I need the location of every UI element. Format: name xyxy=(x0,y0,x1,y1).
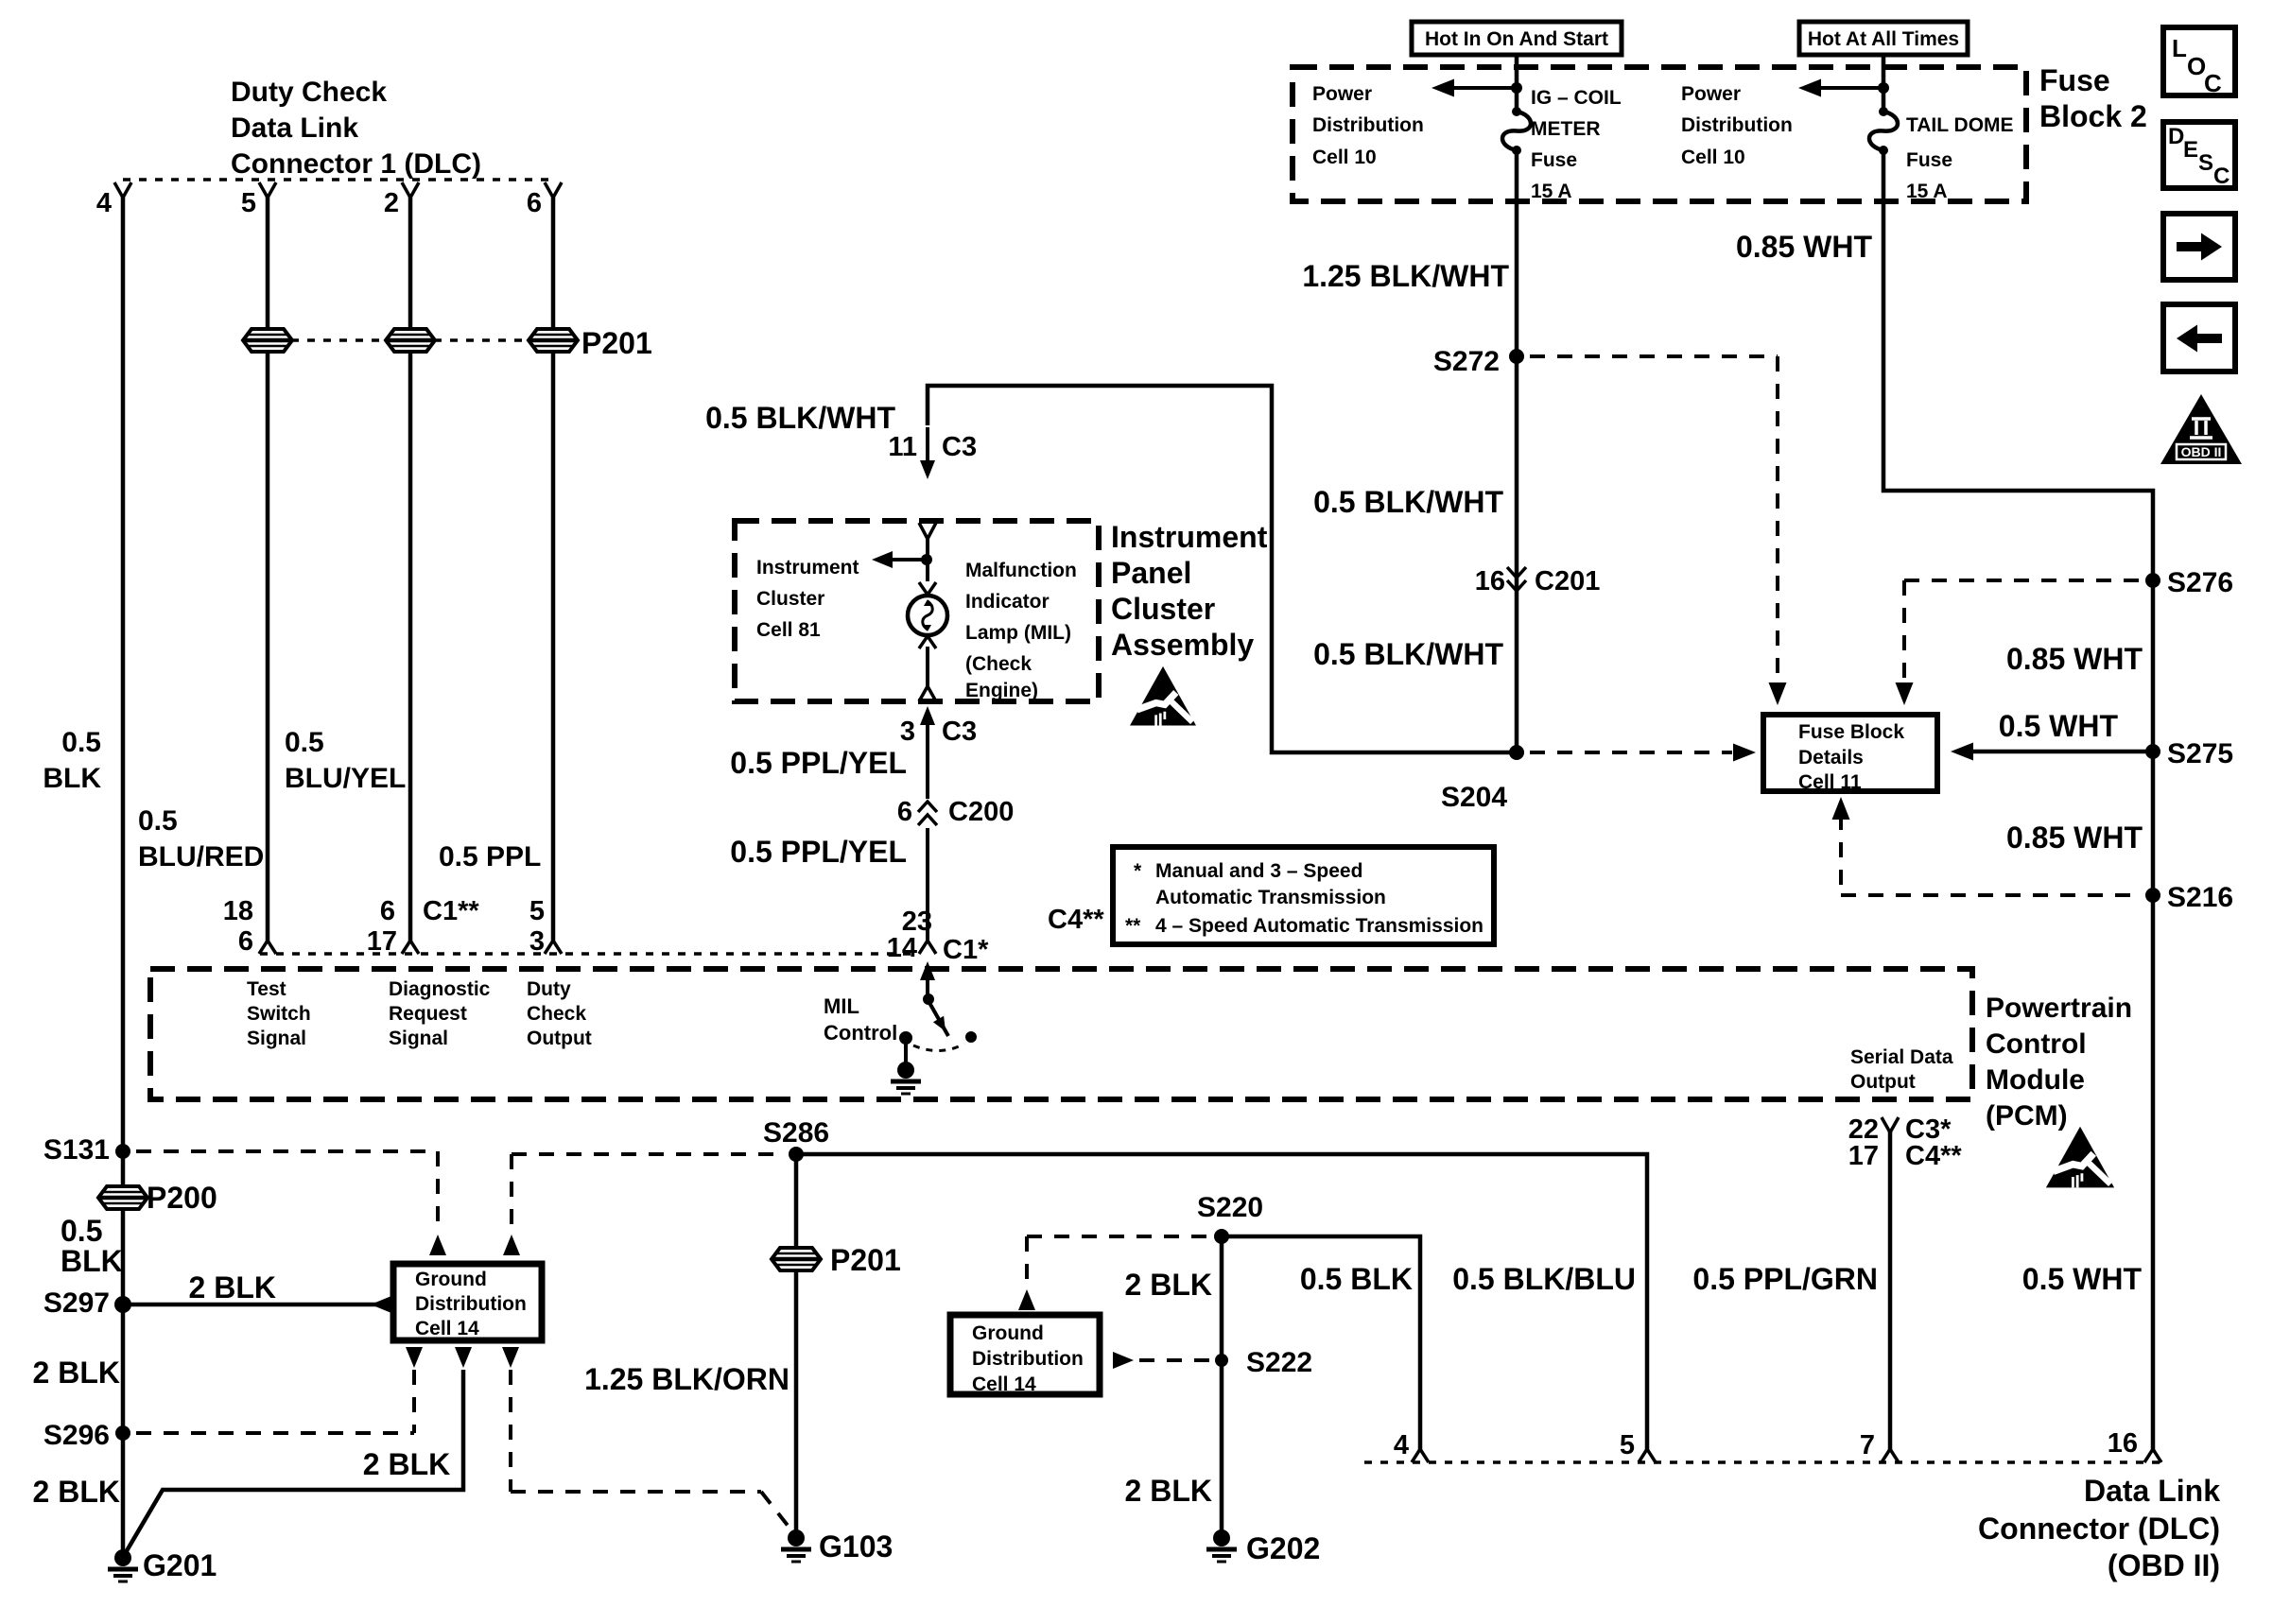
svg-text:S297: S297 xyxy=(43,1287,110,1319)
svg-text:3: 3 xyxy=(900,717,915,747)
DLC1 connector dashed line xyxy=(123,178,553,181)
S275 arrowhead xyxy=(1951,743,1973,761)
PCM dashed box xyxy=(150,969,1972,1099)
svg-text:Fuse: Fuse xyxy=(1906,149,1952,171)
DLC pin 5 fork xyxy=(1639,1449,1647,1462)
S220 route arrowhead xyxy=(1018,1289,1035,1310)
G201 ground wire xyxy=(125,1370,463,1554)
S297 ground wire xyxy=(123,1303,390,1307)
ground dist arrow bottom left xyxy=(406,1347,423,1368)
svg-text:Output: Output xyxy=(527,1028,592,1049)
MIL control switch blade xyxy=(928,1001,948,1036)
svg-text:0.85 WHT: 0.85 WHT xyxy=(1736,230,1872,264)
node S204 xyxy=(1509,745,1524,760)
C201 connector chevrons xyxy=(1507,567,1526,578)
svg-text:Control: Control xyxy=(1986,1028,2087,1060)
S286 dashed line left xyxy=(512,1152,783,1156)
node S272 xyxy=(1509,349,1524,364)
instrument cluster pin fork xyxy=(919,523,928,539)
svg-text:(Check: (Check xyxy=(965,653,1032,675)
svg-text:Malfunction: Malfunction xyxy=(965,560,1077,581)
svg-text:18: 18 xyxy=(223,896,253,926)
DLC1 pin 2 fork xyxy=(402,182,410,198)
MIL control switch arrow to pin 14 xyxy=(926,978,929,999)
svg-text:L: L xyxy=(2172,34,2187,62)
IG-COIL power distribution arrow xyxy=(1447,86,1517,90)
svg-text:Manual and 3 – Speed: Manual and 3 – Speed xyxy=(1155,860,1362,882)
lamp branch junction dot xyxy=(921,554,932,565)
svg-text:Cell 14: Cell 14 xyxy=(415,1318,479,1339)
svg-text:17: 17 xyxy=(367,926,397,957)
svg-text:Cluster: Cluster xyxy=(1111,592,1215,626)
ESD symbol instrument cluster xyxy=(1130,666,1196,726)
svg-text:1.25 BLK/ORN: 1.25 BLK/ORN xyxy=(584,1362,789,1396)
S272 dashed route to fuse details xyxy=(1530,354,1778,358)
wire 0.5 PPL/YEL upper xyxy=(926,754,929,799)
svg-text:2: 2 xyxy=(384,188,399,218)
svg-text:Module: Module xyxy=(1986,1064,2085,1096)
svg-text:Output: Output xyxy=(1850,1071,1916,1093)
svg-text:METER: METER xyxy=(1531,118,1601,140)
instrument cluster bottom pin fork xyxy=(919,686,928,701)
S296 dashed route xyxy=(412,1370,416,1433)
svg-text:G201: G201 xyxy=(143,1548,217,1582)
svg-text:1.25 BLK/WHT: 1.25 BLK/WHT xyxy=(1302,259,1509,293)
svg-text:Signal: Signal xyxy=(247,1028,306,1049)
svg-text:Hot At All Times: Hot At All Times xyxy=(1808,28,1959,50)
S222 dashed link xyxy=(1139,1358,1210,1362)
svg-text:0.5 BLK/WHT: 0.5 BLK/WHT xyxy=(1313,637,1503,671)
svg-text:C4**: C4** xyxy=(1905,1141,1962,1171)
PCM serial data pin fork xyxy=(1882,1117,1890,1132)
svg-text:S296: S296 xyxy=(43,1420,110,1451)
lamp branch arrow left xyxy=(887,558,927,561)
wire A 0.5 BLK vertical xyxy=(121,196,126,1558)
PCM C1 connector dotted line xyxy=(260,952,919,956)
svg-text:S222: S222 xyxy=(1246,1347,1312,1378)
MIL control switch contact dot right xyxy=(965,1031,977,1043)
Ground Distribution Cell 14 box right xyxy=(950,1315,1100,1394)
svg-text:2 BLK: 2 BLK xyxy=(189,1270,276,1304)
wire lamp upper xyxy=(926,535,929,581)
TAIL DOME power distribution arrow xyxy=(1813,86,1883,90)
C200 connector chevrons xyxy=(918,802,937,812)
icon OBD II triangle xyxy=(2160,394,2242,464)
MIL control ground xyxy=(897,1062,914,1079)
wire S286 to G103 xyxy=(794,1154,799,1538)
svg-text:Serial Data: Serial Data xyxy=(1850,1046,1953,1068)
svg-text:C201: C201 xyxy=(1535,566,1600,596)
svg-text:(PCM): (PCM) xyxy=(1986,1100,2068,1132)
wire MIL lamp feed xyxy=(928,386,1510,752)
svg-text:0.5 PPL: 0.5 PPL xyxy=(439,841,541,872)
wire D duty check vertical xyxy=(551,196,556,942)
svg-text:0.5 WHT: 0.5 WHT xyxy=(2022,1262,2143,1296)
fuse TAIL DOME 15A xyxy=(1879,107,1888,116)
Fuse Block 2 dashed box xyxy=(1293,67,2026,201)
svg-text:S275: S275 xyxy=(2167,738,2233,769)
svg-text:7: 7 xyxy=(1860,1430,1875,1460)
ground dist arrow top right xyxy=(503,1235,520,1255)
svg-text:0.5 BLK/WHT: 0.5 BLK/WHT xyxy=(1313,485,1503,519)
svg-text:S286: S286 xyxy=(763,1117,829,1149)
wire P201 dashed links xyxy=(291,338,387,342)
wire lamp lower xyxy=(926,647,929,688)
svg-text:0.5: 0.5 xyxy=(61,727,101,758)
svg-text:Fuse Block: Fuse Block xyxy=(1798,721,1904,743)
splice P201 on wire C xyxy=(386,329,435,352)
ESD symbol PCM xyxy=(2046,1127,2114,1188)
svg-text:Block 2: Block 2 xyxy=(2039,99,2147,133)
svg-text:Signal: Signal xyxy=(389,1028,448,1049)
wire B 0.5 BLU/YEL vertical xyxy=(266,196,270,942)
DLC pin 7 fork xyxy=(1882,1449,1890,1462)
svg-text:0.5 WHT: 0.5 WHT xyxy=(1999,709,2119,743)
svg-text:Ground: Ground xyxy=(972,1322,1044,1344)
svg-text:C200: C200 xyxy=(948,797,1014,827)
node S220 xyxy=(1214,1229,1229,1244)
svg-text:Duty Check: Duty Check xyxy=(231,77,387,108)
node S276 xyxy=(2145,573,2160,588)
wire MIL pin fork xyxy=(919,941,928,954)
svg-text:S276: S276 xyxy=(2167,567,2233,598)
svg-text:0.5: 0.5 xyxy=(138,805,178,837)
svg-text:P201: P201 xyxy=(830,1243,901,1277)
svg-text:Test: Test xyxy=(247,978,286,1000)
svg-text:D: D xyxy=(2168,124,2184,149)
svg-text:P200: P200 xyxy=(147,1181,217,1215)
Hot In On And Start box xyxy=(1412,22,1622,55)
svg-text:C1*: C1* xyxy=(943,935,989,965)
DLC1 pin 6 fork xyxy=(545,182,553,198)
node S275 xyxy=(2145,744,2160,759)
svg-text:6: 6 xyxy=(527,188,542,218)
svg-text:14: 14 xyxy=(887,933,917,963)
svg-text:*: * xyxy=(1134,860,1142,882)
S297 arrowhead xyxy=(371,1296,391,1313)
svg-text:S216: S216 xyxy=(2167,882,2233,913)
S272 route arrowhead xyxy=(1769,682,1787,705)
svg-text:Duty: Duty xyxy=(527,978,571,1000)
svg-text:**: ** xyxy=(1125,915,1141,937)
wire TAIL DOME fuse top xyxy=(1882,55,1886,112)
svg-text:S131: S131 xyxy=(43,1134,110,1166)
svg-text:Powertrain: Powertrain xyxy=(1986,993,2132,1024)
wire 0.5 PPL/YEL lower xyxy=(926,828,929,942)
S276 dashed route to fuse details xyxy=(1904,579,2140,582)
MIL control switch dashed arc xyxy=(913,1044,964,1051)
node S222 xyxy=(1215,1354,1228,1367)
svg-text:BLU/YEL: BLU/YEL xyxy=(285,763,406,794)
Instrument Panel Cluster dashed box xyxy=(735,521,1099,701)
MIL control switch contact dot left xyxy=(899,1031,912,1045)
svg-text:Request: Request xyxy=(389,1003,467,1025)
svg-text:Distribution: Distribution xyxy=(1681,114,1793,136)
svg-text:0.5: 0.5 xyxy=(285,727,324,758)
node S297 xyxy=(114,1296,131,1313)
svg-text:Lamp (MIL): Lamp (MIL) xyxy=(965,622,1071,644)
svg-text:OBD II: OBD II xyxy=(2181,444,2222,459)
svg-text:S204: S204 xyxy=(1441,782,1507,813)
S131 dashed route to ground dist xyxy=(136,1149,438,1153)
icon arrow left box xyxy=(2163,304,2235,371)
DLC1 pin 5 fork xyxy=(259,182,268,198)
svg-text:2 BLK: 2 BLK xyxy=(33,1356,120,1390)
DLC1 pin 4 fork xyxy=(114,182,123,198)
svg-text:Distribution: Distribution xyxy=(972,1348,1084,1370)
S286 dashed route to ground dist xyxy=(510,1154,513,1229)
svg-text:Engine): Engine) xyxy=(965,680,1038,701)
svg-text:Connector (DLC): Connector (DLC) xyxy=(1978,1512,2220,1546)
splice P201 lower xyxy=(772,1248,821,1270)
svg-text:0.85 WHT: 0.85 WHT xyxy=(2006,642,2143,676)
MIL control ground lead xyxy=(904,1044,908,1064)
S204 route arrowhead xyxy=(1733,744,1756,762)
svg-text:5: 5 xyxy=(1620,1430,1635,1460)
svg-text:2 BLK: 2 BLK xyxy=(1125,1474,1212,1508)
svg-text:BLK: BLK xyxy=(43,763,101,794)
svg-text:Cell 81: Cell 81 xyxy=(756,619,821,641)
svg-text:TAIL DOME: TAIL DOME xyxy=(1906,114,2014,136)
svg-text:0.5 PPL/GRN: 0.5 PPL/GRN xyxy=(1692,1262,1878,1296)
ground G103 xyxy=(788,1529,805,1546)
DLC pin 16 fork xyxy=(2144,1449,2153,1462)
svg-text:Ground: Ground xyxy=(415,1269,487,1290)
svg-text:16: 16 xyxy=(2108,1428,2138,1459)
svg-text:C: C xyxy=(2213,164,2230,189)
DLC connector dotted line xyxy=(1364,1460,2161,1464)
node S286 xyxy=(789,1147,804,1162)
svg-text:11: 11 xyxy=(888,432,917,462)
svg-text:Cell 11: Cell 11 xyxy=(1798,771,1862,793)
svg-text:Check: Check xyxy=(527,1003,586,1025)
C3 up arrow xyxy=(926,720,929,756)
svg-text:Assembly: Assembly xyxy=(1111,628,1254,662)
icon LOC box xyxy=(2163,27,2235,95)
svg-text:Cell 14: Cell 14 xyxy=(972,1373,1036,1395)
svg-text:5: 5 xyxy=(529,896,545,926)
svg-text:P201: P201 xyxy=(581,326,652,360)
lamp bottom chevron xyxy=(919,636,936,648)
C3 down arrow xyxy=(926,427,929,465)
svg-text:6: 6 xyxy=(380,896,395,926)
svg-text:0.5 BLK/BLU: 0.5 BLK/BLU xyxy=(1452,1262,1636,1296)
svg-text:6: 6 xyxy=(897,797,912,827)
svg-text:2 BLK: 2 BLK xyxy=(33,1475,120,1509)
ground dist arrow bottom right xyxy=(502,1347,519,1368)
svg-text:15 A: 15 A xyxy=(1531,181,1572,202)
svg-text:BLU/RED: BLU/RED xyxy=(138,841,264,872)
svg-text:Switch: Switch xyxy=(247,1003,311,1025)
svg-text:Connector 1 (DLC): Connector 1 (DLC) xyxy=(231,148,481,180)
svg-text:Distribution: Distribution xyxy=(1312,114,1424,136)
svg-text:G202: G202 xyxy=(1246,1531,1320,1565)
svg-text:0.85 WHT: 0.85 WHT xyxy=(2006,821,2143,855)
Ground Distribution Cell 14 box left xyxy=(393,1264,542,1340)
S216 dashed route to fuse details xyxy=(1841,893,2140,897)
S286 serial data wire xyxy=(796,1154,1647,1451)
fuse IG-COIL METER 15A xyxy=(1512,107,1521,116)
svg-text:C1**: C1** xyxy=(423,896,479,926)
svg-text:Cell 10: Cell 10 xyxy=(1312,147,1377,168)
svg-text:Cell 10: Cell 10 xyxy=(1681,147,1745,168)
svg-text:4: 4 xyxy=(96,188,112,218)
svg-text:IG – COIL: IG – COIL xyxy=(1531,87,1622,109)
svg-text:S272: S272 xyxy=(1433,346,1500,377)
svg-text:2 BLK: 2 BLK xyxy=(1125,1268,1212,1302)
svg-text:Control: Control xyxy=(824,1021,897,1045)
ground dist right box arrow xyxy=(1113,1352,1134,1369)
svg-text:C3: C3 xyxy=(942,432,977,462)
svg-text:17: 17 xyxy=(1848,1141,1879,1171)
svg-text:G103: G103 xyxy=(819,1529,893,1564)
svg-text:Hot In On And Start: Hot In On And Start xyxy=(1425,28,1608,50)
DLC pin 4 fork xyxy=(1412,1449,1420,1462)
node S216 xyxy=(2145,888,2160,903)
TAIL DOME branch dot xyxy=(1878,82,1889,94)
svg-text:Distribution: Distribution xyxy=(415,1293,527,1315)
svg-text:MIL: MIL xyxy=(824,994,859,1018)
svg-text:2 BLK: 2 BLK xyxy=(363,1447,450,1481)
svg-text:Data Link: Data Link xyxy=(2084,1474,2220,1508)
wire D bottom fork xyxy=(545,941,553,954)
svg-text:5: 5 xyxy=(241,188,256,218)
icon arrow right box xyxy=(2163,214,2235,280)
S220 dashed route to ground dist xyxy=(1027,1235,1208,1238)
svg-text:4 – Speed Automatic Transmissi: 4 – Speed Automatic Transmission xyxy=(1155,915,1484,937)
S204 dashed route to fuse details xyxy=(1530,751,1732,754)
svg-text:C: C xyxy=(2204,69,2222,97)
wire IG-COIL fuse top xyxy=(1515,55,1519,112)
svg-text:Fuse: Fuse xyxy=(1531,149,1577,171)
svg-text:Data Link: Data Link xyxy=(231,112,358,144)
svg-text:C4**: C4** xyxy=(1048,905,1104,935)
S276 route arrowhead xyxy=(1896,682,1914,705)
svg-text:4: 4 xyxy=(1394,1430,1409,1460)
svg-text:Instrument: Instrument xyxy=(1111,520,1268,554)
svg-text:Cluster: Cluster xyxy=(756,588,824,610)
splice P201 on wire B xyxy=(243,329,292,352)
svg-text:Details: Details xyxy=(1798,747,1864,769)
wire B bottom fork xyxy=(259,941,268,954)
svg-text:S220: S220 xyxy=(1197,1192,1263,1223)
svg-text:Instrument: Instrument xyxy=(756,557,859,579)
note box manual transmission xyxy=(1113,847,1494,944)
G103 dashed route xyxy=(509,1370,512,1492)
splice P201 on wire D xyxy=(529,329,578,352)
S131 route arrowhead xyxy=(429,1235,446,1255)
svg-text:Power: Power xyxy=(1312,83,1372,105)
svg-text:S: S xyxy=(2198,150,2213,176)
MIL indicator lamp circle xyxy=(908,596,947,635)
ground G201 xyxy=(114,1549,131,1566)
svg-text:Power: Power xyxy=(1681,83,1741,105)
node S131 xyxy=(115,1144,130,1159)
svg-text:BLK: BLK xyxy=(61,1244,123,1278)
wire C bottom fork xyxy=(402,941,410,954)
icon DESC box xyxy=(2163,122,2235,188)
svg-text:E: E xyxy=(2183,137,2198,163)
svg-text:15 A: 15 A xyxy=(1906,181,1948,202)
svg-text:6: 6 xyxy=(238,926,253,957)
lamp top chevron xyxy=(919,582,936,595)
svg-text:Fuse: Fuse xyxy=(2039,63,2110,97)
svg-text:16: 16 xyxy=(1475,566,1505,596)
svg-text:0.5 BLK/WHT: 0.5 BLK/WHT xyxy=(705,401,895,435)
svg-text:3: 3 xyxy=(529,926,545,957)
ground dist arrow bottom mid xyxy=(455,1347,472,1368)
wire S220 to pin 4 xyxy=(1222,1236,1420,1451)
svg-text:0.5: 0.5 xyxy=(61,1214,102,1248)
Fuse Block Details box xyxy=(1763,715,1937,791)
node S296 xyxy=(115,1425,130,1441)
S275 wire to fuse details xyxy=(1968,750,2153,754)
S216 route arrowhead xyxy=(1832,797,1850,820)
svg-text:Automatic Transmission: Automatic Transmission xyxy=(1155,887,1386,908)
svg-text:0.5 PPL/YEL: 0.5 PPL/YEL xyxy=(730,746,907,780)
ground G202 xyxy=(1213,1529,1230,1546)
svg-text:0.5 PPL/YEL: 0.5 PPL/YEL xyxy=(730,835,907,869)
svg-text:(OBD II): (OBD II) xyxy=(2108,1548,2220,1582)
IG-COIL branch dot xyxy=(1511,82,1522,94)
wire C 0.5 PPL vertical xyxy=(408,196,413,942)
wire S220 to G202 xyxy=(1220,1236,1224,1538)
lamp filament xyxy=(923,601,933,630)
MIL control switch pole dot xyxy=(923,993,934,1005)
svg-text:0.5 BLK: 0.5 BLK xyxy=(1300,1262,1413,1296)
wire 0.85 WHT tail dome xyxy=(1883,150,2153,1451)
svg-text:Panel: Panel xyxy=(1111,556,1191,590)
svg-text:Indicator: Indicator xyxy=(965,591,1050,613)
Hot At All Times box xyxy=(1799,22,1968,55)
wire serial data pin 7 xyxy=(1888,1131,1893,1451)
svg-text:Diagnostic: Diagnostic xyxy=(389,978,491,1000)
wire 1.25 BLK/WHT xyxy=(1515,150,1519,752)
splice P200 xyxy=(98,1186,147,1209)
svg-text:C3: C3 xyxy=(942,717,977,747)
